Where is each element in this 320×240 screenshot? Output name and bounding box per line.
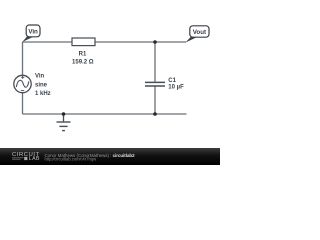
svg-text:Vin: Vin (35, 74, 45, 80)
svg-text:R1: R1 (79, 52, 87, 58)
svg-text:LAB: LAB (29, 156, 40, 162)
svg-text:Vin: Vin (28, 29, 38, 36)
svg-text:sine: sine (35, 83, 48, 89)
svg-text:http:⁄⁄circuitlab.com⁄c4r7hqw: http:⁄⁄circuitlab.com⁄c4r7hqw (45, 156, 98, 161)
svg-text:159.2 Ω: 159.2 Ω (72, 59, 94, 65)
svg-text:Vout: Vout (193, 29, 206, 36)
svg-text:10 µF: 10 µF (168, 84, 184, 90)
svg-text:C1: C1 (168, 78, 176, 84)
svg-text:1 kHz: 1 kHz (35, 91, 51, 97)
